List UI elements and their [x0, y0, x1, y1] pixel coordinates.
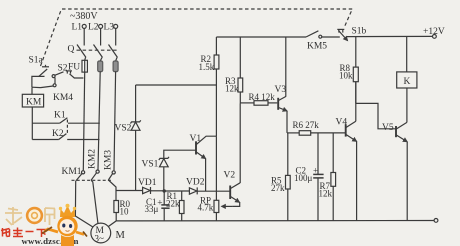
watermark ring logo	[27, 208, 42, 223]
wire: dashed KM linkage	[72, 179, 113, 181]
svg-text:VD2: VD2	[186, 178, 205, 188]
wire L1 down	[83, 29, 85, 46]
resistor R0	[114, 201, 119, 213]
top rail +12V	[216, 36, 306, 38]
svg-text:L1: L1	[72, 23, 83, 33]
wire KM4 left	[32, 86, 41, 88]
terminal bottom right	[434, 219, 438, 223]
wire L3 down	[115, 29, 117, 46]
watermark	[1, 204, 87, 246]
svg-text:V5: V5	[382, 123, 394, 133]
svg-text:R6 27k: R6 27k	[293, 120, 320, 130]
wire node to VD2	[164, 190, 189, 192]
relay K	[397, 72, 417, 88]
svg-text:1.5k: 1.5k	[199, 62, 215, 72]
svg-text:4.7k: 4.7k	[198, 203, 214, 213]
svg-text:KM2: KM2	[88, 149, 98, 169]
fuse FU phase2	[100, 58, 102, 62]
svg-text:S1b: S1b	[352, 27, 367, 37]
svg-text:KM4: KM4	[53, 93, 73, 103]
wire S1a bottom to left node	[32, 76, 45, 87]
svg-text:L2: L2	[88, 23, 99, 33]
wire: dashed linkage of Q	[77, 49, 120, 51]
svg-text:V3: V3	[275, 85, 287, 95]
svg-text:12k: 12k	[225, 84, 239, 94]
wire: dashed mechanical link S1a to S1b	[41, 9, 353, 66]
svg-text:12k: 12k	[319, 189, 333, 199]
wire L2 down	[100, 29, 102, 46]
wire VS1 top to V1 base	[164, 150, 196, 158]
svg-text:KM: KM	[26, 98, 42, 108]
wire R0 bottom to motor / rail	[107, 213, 116, 228]
wire R8 jog to V5 base	[356, 103, 396, 128]
wire KM2 out to motor	[91, 180, 98, 224]
watermark red text 维库一下	[1, 228, 47, 238]
svg-text:KM5: KM5	[307, 42, 327, 52]
svg-text:Q: Q	[68, 45, 75, 55]
wire KM box bottom to K1/K2	[31, 107, 33, 140]
wire KM box top	[31, 87, 33, 94]
watermark faint yellow glyphs	[5, 207, 55, 225]
svg-text:22k: 22k	[166, 199, 180, 209]
svg-text:M: M	[116, 230, 126, 241]
wire rectifier row	[116, 190, 142, 192]
coil KM (box)	[22, 94, 43, 107]
watermark mascot	[42, 204, 87, 246]
wiper arrow of RP	[222, 205, 233, 207]
wire S2 right to phase1	[70, 74, 84, 78]
svg-text:KM1: KM1	[62, 167, 82, 177]
wire KM1 out to motor	[75, 181, 93, 228]
wire: dashed K1-K2 linkage	[66, 120, 68, 134]
wire phase1 down to KM1	[83, 72, 84, 170]
svg-text:3~: 3~	[95, 234, 105, 244]
wire R2 node to VS2	[136, 84, 217, 86]
wire phase2 down to KM2	[98, 72, 100, 170]
svg-text:~380V: ~380V	[70, 11, 98, 22]
svg-text:+: +	[157, 199, 162, 209]
bottom rail	[116, 220, 434, 222]
svg-text:VS1: VS1	[142, 160, 159, 170]
wire S2-KM4 right link	[54, 78, 56, 85]
svg-text:10k: 10k	[339, 71, 353, 81]
wire VD2 to V2 base	[197, 190, 230, 192]
node dot (C1/VS1 junction)	[163, 189, 166, 192]
svg-text:VD1: VD1	[138, 178, 157, 188]
svg-text:K: K	[404, 77, 411, 87]
svg-text:L3: L3	[104, 23, 115, 33]
svg-text:V2: V2	[224, 171, 236, 181]
wire KM3 out to R0 junction	[108, 180, 116, 201]
fuse FU phase3	[116, 58, 117, 62]
svg-text:10: 10	[120, 207, 130, 217]
svg-text:S1a: S1a	[29, 56, 44, 66]
svg-text:VS2: VS2	[115, 124, 132, 134]
motor M	[91, 223, 111, 243]
wire phase3 down to KM3	[114, 72, 116, 171]
svg-text:+12V: +12V	[423, 27, 445, 37]
svg-text:100μ: 100μ	[294, 173, 313, 183]
wire VD1 to node	[151, 190, 165, 192]
svg-text:K1: K1	[54, 111, 66, 121]
svg-text:27k: 27k	[271, 183, 285, 193]
svg-text:KM3: KM3	[104, 150, 114, 170]
